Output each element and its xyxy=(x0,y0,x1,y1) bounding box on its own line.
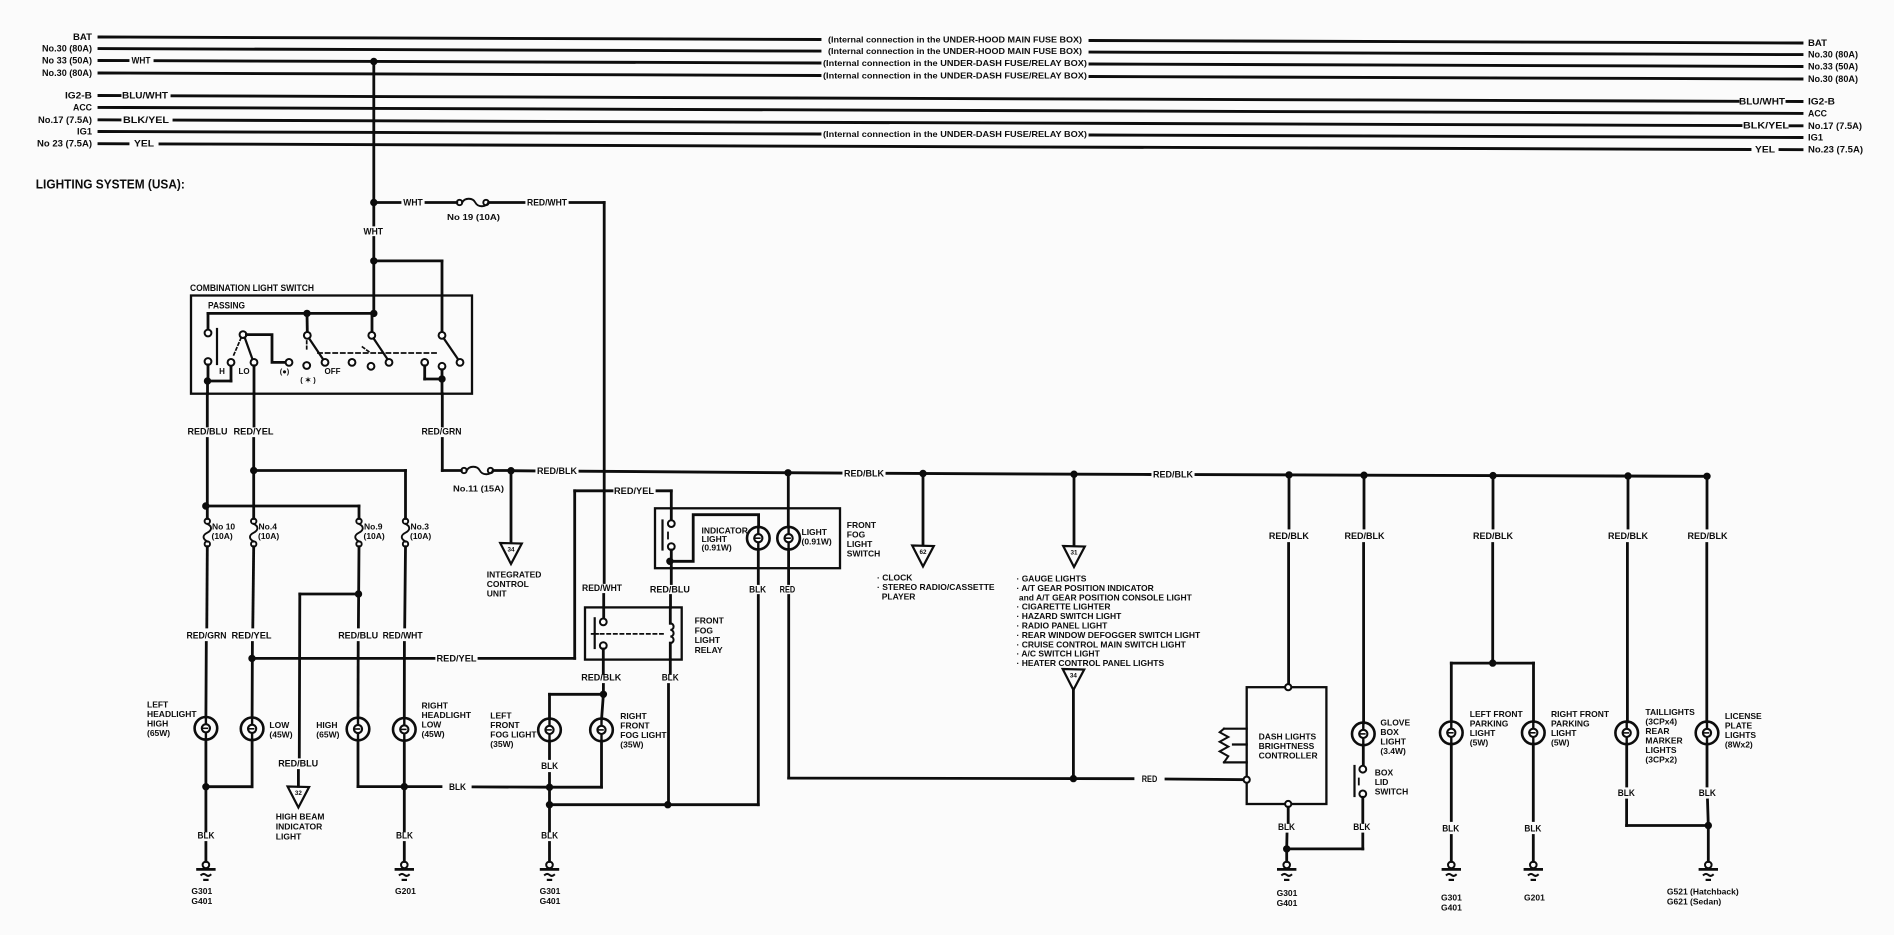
svg-text:TAILLIGHTS: TAILLIGHTS xyxy=(1645,707,1695,717)
node junction switch 4 xyxy=(371,310,377,316)
node RED/BLK junction x=788 xyxy=(785,470,791,476)
wire passing/LO common xyxy=(207,365,210,381)
wire BLK xyxy=(1625,744,1628,786)
svg-text:BLK: BLK xyxy=(1278,822,1295,833)
box lid switch tick xyxy=(1358,779,1360,785)
connector 31 gauge lights feed xyxy=(1073,474,1076,545)
svg-text:FRONT: FRONT xyxy=(620,721,650,731)
wire RED/YEL out of switch xyxy=(253,366,256,394)
svg-text:(5W): (5W) xyxy=(1551,738,1570,748)
svg-text:RED/BLK: RED/BLK xyxy=(1608,531,1648,542)
svg-text:WHT: WHT xyxy=(364,227,384,238)
svg-text:COMBINATION LIGHT SWITCH: COMBINATION LIGHT SWITCH xyxy=(190,283,314,294)
switch blade 4 xyxy=(374,338,388,359)
wire RED/BLK to parking lights xyxy=(1492,476,1495,528)
node RED/BLU junction to fuse No.9 xyxy=(203,503,209,509)
wire fog switch to indicator xyxy=(670,550,673,568)
connector 34 dash lights feed xyxy=(1063,669,1085,690)
connector 62 clock feed xyxy=(922,474,925,546)
fuse No.19 (10A) xyxy=(457,199,489,207)
svg-text:FOG LIGHT: FOG LIGHT xyxy=(490,730,537,740)
wire BLK xyxy=(1532,744,1535,820)
bus wire IG1 xyxy=(99,132,820,135)
wire to fuse No.3 xyxy=(254,469,406,472)
svg-text:G201: G201 xyxy=(395,886,416,896)
svg-text:(3.4W): (3.4W) xyxy=(1380,746,1406,756)
node RED/YEL tap to fog switch xyxy=(249,655,255,661)
svg-text:G401: G401 xyxy=(1441,903,1462,913)
wire BLK from box lid switch xyxy=(1361,797,1364,822)
wire switch2 to switch3 xyxy=(246,335,285,363)
svg-text:HIGH: HIGH xyxy=(316,720,337,730)
wire RED/BLU fuse No.9 to high lamp xyxy=(357,547,360,627)
relay blade xyxy=(594,618,596,648)
svg-text:No.17 (7.5A): No.17 (7.5A) xyxy=(38,115,92,125)
svg-text:RED/YEL: RED/YEL xyxy=(614,486,654,497)
svg-text:BLK: BLK xyxy=(198,831,215,842)
switch blade 3 xyxy=(309,338,323,359)
svg-text:No.17 (7.5A): No.17 (7.5A) xyxy=(1808,121,1862,131)
bus wire IG2-B BLU/WHT xyxy=(99,94,120,97)
node parking light split xyxy=(1490,660,1496,666)
svg-text:FOG: FOG xyxy=(847,530,866,540)
svg-text:YEL: YEL xyxy=(134,139,155,149)
front fog light relay xyxy=(585,607,682,659)
svg-text:RED/BLK: RED/BLK xyxy=(1688,531,1728,542)
svg-text:RED/BLK: RED/BLK xyxy=(1345,531,1385,542)
node RED/BLK junction x=1364 xyxy=(1361,472,1367,478)
svg-text:BLK: BLK xyxy=(1699,788,1716,799)
wire BLK from indicator lamp xyxy=(757,550,760,584)
svg-text:(0.91W): (0.91W) xyxy=(702,543,732,553)
svg-text:RED/BLU: RED/BLU xyxy=(278,758,318,769)
svg-text:No 19 (10A): No 19 (10A) xyxy=(447,212,500,222)
svg-text:LIGHTS: LIGHTS xyxy=(1645,745,1676,755)
svg-text:ACC: ACC xyxy=(73,102,93,112)
box lid switch xyxy=(1359,766,1366,773)
svg-text:RIGHT: RIGHT xyxy=(620,711,647,721)
svg-text:G301: G301 xyxy=(1441,893,1462,903)
svg-text:(35W): (35W) xyxy=(490,739,513,749)
svg-text:RED/BLK: RED/BLK xyxy=(537,466,577,477)
wire RED/WHT fuse No.3 to right headlight low xyxy=(403,547,407,627)
wire to high beam indicator xyxy=(300,593,359,596)
svg-text:RED/BLU: RED/BLU xyxy=(650,585,690,596)
svg-text:HEADLIGHT: HEADLIGHT xyxy=(147,709,197,719)
svg-text:34: 34 xyxy=(1070,673,1078,680)
svg-text:(65W): (65W) xyxy=(147,728,170,738)
node RED/YEL junction to fuse No.3 xyxy=(251,467,257,473)
node RED junction xyxy=(1070,775,1076,781)
svg-text:32: 32 xyxy=(295,790,303,797)
svg-text:FRONT: FRONT xyxy=(490,720,520,730)
svg-text:FRONT: FRONT xyxy=(847,520,877,530)
svg-text:BRIGHTNESS: BRIGHTNESS xyxy=(1259,741,1315,751)
svg-text:(3CPx4): (3CPx4) xyxy=(1645,717,1677,727)
svg-text:REAR: REAR xyxy=(1645,726,1669,736)
wire switch5 common xyxy=(423,366,426,379)
bus wire BAT xyxy=(99,37,820,40)
svg-text:(10A): (10A) xyxy=(212,531,233,541)
svg-text:RED/GRN: RED/GRN xyxy=(187,631,227,642)
node RED/BLK junction x=923 xyxy=(920,470,926,476)
svg-text:LEFT FRONT: LEFT FRONT xyxy=(1470,709,1524,719)
bus wire ACC xyxy=(99,107,1802,113)
relay dashed link xyxy=(601,633,664,635)
box lid switch blade xyxy=(1353,766,1355,796)
svg-text:LICENSE: LICENSE xyxy=(1725,711,1762,721)
svg-text:PARKING: PARKING xyxy=(1470,719,1509,729)
svg-text:LO: LO xyxy=(238,367,249,376)
lamp left headlight high (65W) xyxy=(195,717,218,740)
svg-text:UNIT: UNIT xyxy=(487,589,508,599)
wire RED/YEL to fog circuit xyxy=(252,657,434,660)
svg-text:HEADLIGHT: HEADLIGHT xyxy=(422,710,472,720)
wire RED/WHT vertical to relay xyxy=(603,203,606,583)
svg-text:G301: G301 xyxy=(540,886,561,896)
svg-text:G301: G301 xyxy=(1277,888,1298,898)
svg-text:No.30 (80A): No.30 (80A) xyxy=(1808,50,1858,60)
svg-text:RED/WHT: RED/WHT xyxy=(527,198,567,209)
wire to fuse No.9 xyxy=(206,505,359,508)
svg-text:ACC: ACC xyxy=(1808,108,1828,118)
wire BLK left headlights to ground xyxy=(204,740,207,787)
svg-text:G201: G201 xyxy=(1524,893,1545,903)
wire BLK fog ground bus xyxy=(550,803,668,806)
fuse No.3 (10A) xyxy=(402,519,410,547)
svg-text:No.30 (80A): No.30 (80A) xyxy=(1808,74,1858,84)
svg-text:BLK: BLK xyxy=(541,831,558,842)
bus wire No.30 (80A) xyxy=(99,49,820,52)
lamp low (45W) xyxy=(241,718,264,741)
svg-text:· HEATER CONTROL PANEL LIGHTS: · HEATER CONTROL PANEL LIGHTS xyxy=(1017,658,1165,668)
node WHT tap on bus No.33 xyxy=(371,58,377,64)
switch headlight dimmer (switch 2) xyxy=(240,331,247,338)
svg-text:BLU/WHT: BLU/WHT xyxy=(1739,96,1786,106)
svg-text:(5W): (5W) xyxy=(1470,738,1489,748)
lamp left front fog light (35W) xyxy=(538,719,561,742)
svg-text:34: 34 xyxy=(507,547,515,554)
svg-text:MARKER: MARKER xyxy=(1645,736,1682,746)
fog switch blade xyxy=(661,521,663,550)
svg-text:RED/YEL: RED/YEL xyxy=(232,631,272,642)
svg-text:(0.91W): (0.91W) xyxy=(802,537,832,547)
node BLK junction fog xyxy=(546,784,552,790)
svg-text:IG1: IG1 xyxy=(1808,133,1823,143)
svg-text:BLK: BLK xyxy=(449,782,466,793)
svg-text:No 33 (50A): No 33 (50A) xyxy=(42,56,92,66)
svg-text:LEFT: LEFT xyxy=(147,700,169,710)
terminal top xyxy=(1285,684,1291,690)
svg-text:No.30 (80A): No.30 (80A) xyxy=(42,68,92,78)
wire RED/YEL fuse No.4 to low lamp xyxy=(251,547,255,627)
wire WHT to fuse No.19 xyxy=(374,201,400,204)
dashed link 4 xyxy=(363,347,371,353)
wire RED/BLK to fog switch lamp xyxy=(787,473,790,527)
svg-text:(10A): (10A) xyxy=(410,531,431,541)
svg-text:(Internal connection in the UN: (Internal connection in the UNDER-DASH F… xyxy=(823,58,1087,68)
svg-text:(3CPx2): (3CPx2) xyxy=(1645,755,1677,765)
node junction switch 3 xyxy=(304,310,310,316)
lamp right front parking light (5W) xyxy=(1532,663,1535,722)
svg-text:SWITCH: SWITCH xyxy=(1375,787,1409,797)
relay coil xyxy=(669,607,672,623)
svg-text:LIGHT: LIGHT xyxy=(1380,737,1406,747)
svg-text:RED/BLK: RED/BLK xyxy=(844,468,884,479)
lamp right headlight low (45W) xyxy=(393,718,416,741)
svg-text:GLOVE: GLOVE xyxy=(1380,718,1410,728)
svg-text:WHT: WHT xyxy=(403,198,423,209)
bus wire No.17 (7.5A) BLK/YEL xyxy=(99,118,120,121)
resistor dash controller xyxy=(1224,728,1247,730)
svg-text:BLK: BLK xyxy=(1618,788,1635,799)
svg-text:G621 (Sedan): G621 (Sedan) xyxy=(1667,897,1721,907)
svg-text:LOW: LOW xyxy=(269,720,290,730)
svg-text:62: 62 xyxy=(919,549,927,556)
lamp right front fog light (35W) xyxy=(590,719,613,742)
svg-text:(10A): (10A) xyxy=(258,531,279,541)
svg-text:FRONT: FRONT xyxy=(695,616,725,626)
ground G301 G401 xyxy=(541,862,558,880)
dashed gang line xyxy=(318,352,437,354)
wire RED/YEL to fog switch xyxy=(573,491,576,659)
svg-text:G401: G401 xyxy=(1277,898,1298,908)
ground G521 G621 xyxy=(1700,862,1717,880)
node RED/BLK junction to ICU xyxy=(508,468,514,474)
bus wire No.33 (50A) WHT xyxy=(99,59,128,62)
svg-text:BAT: BAT xyxy=(73,32,93,42)
svg-text:No 10: No 10 xyxy=(212,522,235,532)
node RED/BLK junction x=1074 xyxy=(1071,471,1077,477)
svg-text:RIGHT: RIGHT xyxy=(422,701,449,711)
wire passing feed line xyxy=(208,312,374,315)
svg-text:RIGHT FRONT: RIGHT FRONT xyxy=(1551,709,1610,719)
svg-text:BLU/WHT: BLU/WHT xyxy=(122,91,169,101)
switch light main (switch 3) xyxy=(306,313,309,332)
svg-text:LIGHT: LIGHT xyxy=(847,539,873,549)
fog switch contacts xyxy=(668,520,675,527)
fuse No.4 (10A) xyxy=(250,519,258,547)
ground G201 xyxy=(1525,862,1542,880)
svg-text:INTEGRATED: INTEGRATED xyxy=(487,570,542,580)
svg-text:LOW: LOW xyxy=(422,720,443,730)
dashed link 3 xyxy=(306,341,308,351)
svg-text:LIGHT: LIGHT xyxy=(1470,728,1496,738)
wire RED from fog switch lamp xyxy=(787,550,790,584)
node WHT junction to fuse No.19 xyxy=(371,199,377,205)
wire RED/YEL from switch xyxy=(253,394,256,426)
svg-text:G401: G401 xyxy=(540,896,561,906)
svg-text:LIGHTING SYSTEM (USA):: LIGHTING SYSTEM (USA): xyxy=(36,177,185,192)
svg-text:RED: RED xyxy=(1142,774,1158,785)
svg-text:G301: G301 xyxy=(191,886,212,896)
svg-text:RED/YEL: RED/YEL xyxy=(234,426,274,437)
svg-text:DASH LIGHTS: DASH LIGHTS xyxy=(1259,732,1317,742)
svg-text:(35W): (35W) xyxy=(620,740,643,750)
wire RED bus xyxy=(789,777,1133,780)
bus wire No.23 (7.5A) YEL xyxy=(99,142,128,145)
svg-text:(●): (●) xyxy=(280,367,290,376)
svg-text:FOG LIGHT: FOG LIGHT xyxy=(620,730,667,740)
svg-text:(Internal connection in the UN: (Internal connection in the UNDER-DASH F… xyxy=(823,71,1087,81)
wire BLK to fog lamps xyxy=(404,785,441,788)
svg-text:(8Wx2): (8Wx2) xyxy=(1725,740,1753,750)
ground G301 G401 xyxy=(1278,862,1295,880)
wire RED/BLK to taillights xyxy=(1627,476,1630,528)
terminal bottom xyxy=(1285,801,1291,807)
svg-text:G401: G401 xyxy=(191,896,212,906)
node BLK join G201 xyxy=(401,783,407,789)
svg-text:RED/WHT: RED/WHT xyxy=(582,583,622,594)
node BLK join xyxy=(1284,846,1290,852)
svg-text:PARKING: PARKING xyxy=(1551,719,1590,729)
svg-text:IG2-B: IG2-B xyxy=(1808,97,1835,107)
ground G201 xyxy=(396,862,413,880)
node fog lamp split xyxy=(600,691,606,697)
svg-text:BOX: BOX xyxy=(1375,768,1394,778)
svg-text:HIGH: HIGH xyxy=(147,719,168,729)
connector 32 high beam indicator light xyxy=(288,787,310,808)
wire RED/BLK relay to fog lamps xyxy=(602,649,605,674)
svg-text:RED/YEL: RED/YEL xyxy=(437,653,477,664)
lamp taillights rear marker lights xyxy=(1615,722,1638,745)
svg-text:( ✶ ): ( ✶ ) xyxy=(300,376,316,385)
svg-text:RED/BLK: RED/BLK xyxy=(1153,470,1193,481)
wire RED/WHT xyxy=(489,201,524,204)
wire RED/BLK xyxy=(493,469,511,472)
svg-text:BLK: BLK xyxy=(749,585,766,596)
svg-text:No.30 (80A): No.30 (80A) xyxy=(42,44,92,54)
svg-text:CONTROLLER: CONTROLLER xyxy=(1259,751,1318,761)
wire BLK right headlights to ground xyxy=(357,740,360,786)
svg-text:YEL: YEL xyxy=(1755,145,1776,155)
lamp indicator light (0.91W) xyxy=(747,527,770,550)
svg-text:LIGHT: LIGHT xyxy=(276,832,302,842)
relay blade tick xyxy=(592,633,598,635)
svg-text:BLK/YEL: BLK/YEL xyxy=(123,115,170,125)
switch blade 5 xyxy=(444,338,459,359)
node BLK junction xyxy=(665,802,671,808)
svg-text:LEFT: LEFT xyxy=(490,711,512,721)
svg-text:BLK: BLK xyxy=(541,761,558,772)
svg-text:BLK: BLK xyxy=(1524,823,1541,834)
svg-text:BAT: BAT xyxy=(1808,38,1828,48)
svg-text:BLK/YEL: BLK/YEL xyxy=(1743,121,1790,131)
wire RED/GRN out of switch xyxy=(441,379,444,394)
lamp license plate lights (8Wx2) xyxy=(1696,722,1719,745)
node RED/BLK junction x=1707 xyxy=(1704,473,1710,479)
svg-text:(Internal connection in the UN: (Internal connection in the UNDER-DASH F… xyxy=(823,129,1087,139)
svg-text:LID: LID xyxy=(1375,777,1389,787)
wire WHT to switch 5 xyxy=(374,259,442,262)
ground G301 G401 xyxy=(198,862,215,880)
svg-text:H: H xyxy=(219,367,225,376)
wire RED/GRN fuse No.10 to left headlight high xyxy=(205,547,208,627)
connector 62 xyxy=(912,546,934,567)
svg-text:BLK: BLK xyxy=(396,831,413,842)
wire RED/BLU from switch xyxy=(206,394,209,426)
switch light main (switch 4) xyxy=(371,313,374,332)
svg-text:LIGHTS: LIGHTS xyxy=(1725,730,1756,740)
wire connector 34 to RED bus xyxy=(1072,690,1075,779)
svg-text:RED/BLK: RED/BLK xyxy=(1269,531,1309,542)
svg-text:No.4: No.4 xyxy=(259,522,278,532)
svg-text:RED/BLK: RED/BLK xyxy=(1473,531,1513,542)
wire BLK controller to ground xyxy=(1287,807,1290,822)
svg-text:RED/GRN: RED/GRN xyxy=(422,426,462,437)
svg-text:PASSING: PASSING xyxy=(208,301,245,312)
svg-text:LIGHT: LIGHT xyxy=(1551,728,1577,738)
svg-text:BLK: BLK xyxy=(1353,822,1370,833)
svg-text:RED/WHT: RED/WHT xyxy=(383,631,423,642)
svg-text:No.9: No.9 xyxy=(364,522,383,532)
svg-text:IG1: IG1 xyxy=(77,127,92,137)
wire to integrated control unit xyxy=(510,471,513,543)
svg-text:31: 31 xyxy=(1070,550,1078,557)
lamp high (65W) xyxy=(347,718,370,741)
lamp left front parking light (5W) xyxy=(1450,663,1453,722)
svg-text:No.23 (7.5A): No.23 (7.5A) xyxy=(1808,145,1863,155)
ground G301 G401 xyxy=(1443,862,1460,880)
svg-text:RELAY: RELAY xyxy=(695,645,723,655)
svg-text:LIGHT: LIGHT xyxy=(695,635,721,645)
wire WHT vertical xyxy=(372,62,375,226)
svg-text:G521 (Hatchback): G521 (Hatchback) xyxy=(1667,887,1739,897)
node RED/BLK junction x=1493 xyxy=(1490,472,1496,478)
svg-text:OFF: OFF xyxy=(325,367,341,376)
svg-text:RED: RED xyxy=(780,585,796,596)
svg-text:LIGHT: LIGHT xyxy=(802,527,828,537)
node BLK join xyxy=(203,784,209,790)
svg-text:(45W): (45W) xyxy=(269,730,292,740)
svg-text:(Internal connection in the UN: (Internal connection in the UNDER-HOOD M… xyxy=(828,35,1082,45)
svg-text:BOX: BOX xyxy=(1380,727,1399,737)
fog switch blade tick xyxy=(667,533,669,539)
svg-text:(10A): (10A) xyxy=(364,531,385,541)
svg-text:FOG: FOG xyxy=(695,625,714,635)
svg-text:No.3: No.3 xyxy=(411,522,430,532)
svg-text:BLK: BLK xyxy=(1442,823,1459,834)
wire BLK from relay coil xyxy=(669,660,672,674)
svg-text:· CLOCK: · CLOCK xyxy=(877,573,913,583)
svg-text:IG2-B: IG2-B xyxy=(65,91,92,101)
wire BLK xyxy=(1450,744,1453,820)
svg-text:· STEREO RADIO/CASSETTE: · STEREO RADIO/CASSETTE xyxy=(877,582,995,592)
svg-text:RED/BLU: RED/BLU xyxy=(188,426,228,437)
svg-text:RED/BLK: RED/BLK xyxy=(581,673,621,684)
node BLK join license xyxy=(1705,822,1711,828)
svg-text:HIGH BEAM: HIGH BEAM xyxy=(276,812,325,822)
relay contacts xyxy=(600,619,607,626)
svg-text:No.11 (15A): No.11 (15A) xyxy=(453,484,504,494)
wire RED/BLK to glove box light xyxy=(1363,475,1366,528)
combination light switch xyxy=(191,296,472,394)
terminal left xyxy=(1244,777,1250,783)
svg-text:(Internal connection in the UN: (Internal connection in the UNDER-HOOD M… xyxy=(828,46,1082,56)
wire BLK fog lamps to ground xyxy=(548,741,551,758)
wire BLK glove box to ground join xyxy=(1287,848,1363,851)
wire RED/BLK to controller xyxy=(1288,475,1291,528)
wire RED/GRN from switch xyxy=(441,394,444,426)
node WHT junction to switch xyxy=(371,258,377,264)
svg-text:No.33 (50A): No.33 (50A) xyxy=(1808,62,1858,72)
connector 31 xyxy=(1063,546,1085,567)
connector 34 integrated control unit xyxy=(500,543,522,564)
fuse No.11 (15A) xyxy=(461,467,493,475)
switch blade 2 alternate dashed xyxy=(234,338,242,356)
svg-text:BLK: BLK xyxy=(662,673,679,684)
fuse No.10 (10A) xyxy=(204,519,212,547)
